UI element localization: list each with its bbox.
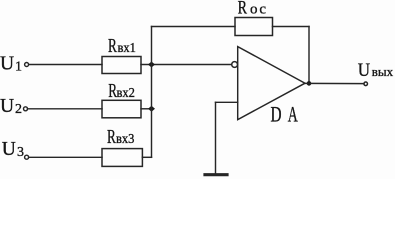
wire U1 to Rvx1 (29, 64, 102, 66)
label U2 (0, 96, 22, 117)
resistor Rvx1 (102, 57, 141, 74)
terminal U1 (25, 63, 29, 67)
resistor Rvx2 (102, 100, 141, 118)
wire bus row1 to row2 (151, 65, 153, 109)
label Rvx1 (108, 34, 136, 56)
svg-text:вых: вых (372, 64, 394, 79)
wire non-inverting input to ground (215, 102, 217, 173)
op-amp DA triangle (238, 47, 305, 120)
wire non-inverting input (216, 101, 238, 103)
wire Rvx3 to bus (142, 156, 151, 158)
label Roc (238, 0, 268, 18)
svg-text:U: U (358, 59, 370, 80)
wire feedback drop to output node (308, 27, 310, 84)
svg-text:2: 2 (15, 102, 22, 117)
label Rvx2 (108, 79, 135, 101)
svg-text:ос: ос (250, 1, 268, 17)
terminal U2 (24, 107, 28, 111)
wire feedback riser (151, 27, 153, 65)
resistor Rvx3 (102, 149, 142, 167)
label DA (271, 102, 299, 127)
terminal Uvyh (364, 82, 368, 86)
resistor Roc (235, 18, 273, 36)
wire Roc to feedback drop (273, 26, 310, 28)
label U1 (0, 54, 22, 75)
ground (205, 173, 227, 176)
wire Rvx1 to inverting input (141, 64, 232, 66)
svg-text:вх2: вх2 (117, 85, 135, 101)
junction summing node row2 (148, 106, 155, 112)
wire Rvx2 to bus (141, 108, 152, 110)
junction summing node row1 (148, 62, 155, 68)
wire op-amp output to terminal (305, 82, 364, 84)
terminal U3 (25, 155, 29, 159)
wire U3 to Rvx3 (29, 156, 102, 158)
svg-text:R: R (238, 0, 247, 18)
wire bus row2 to row3 (151, 109, 153, 158)
op-amp DA inverting input circle (232, 62, 238, 68)
svg-text:R: R (108, 34, 117, 56)
label U3 (2, 139, 24, 160)
svg-text:1: 1 (15, 59, 22, 74)
svg-text:вх1: вх1 (118, 40, 136, 56)
svg-text:3: 3 (17, 145, 24, 160)
junction output node (307, 81, 312, 86)
svg-text:R: R (107, 125, 116, 147)
svg-text:U: U (0, 54, 14, 75)
svg-text:U: U (0, 96, 14, 117)
svg-text:U: U (2, 139, 16, 160)
wire U2 to Rvx2 (28, 108, 102, 110)
svg-text:A: A (288, 102, 298, 127)
label Rvx3 (107, 125, 134, 147)
svg-text:вх3: вх3 (116, 131, 134, 147)
label Uvyh (358, 59, 394, 80)
svg-text:D: D (271, 103, 282, 128)
wire riser to Roc (152, 26, 236, 28)
